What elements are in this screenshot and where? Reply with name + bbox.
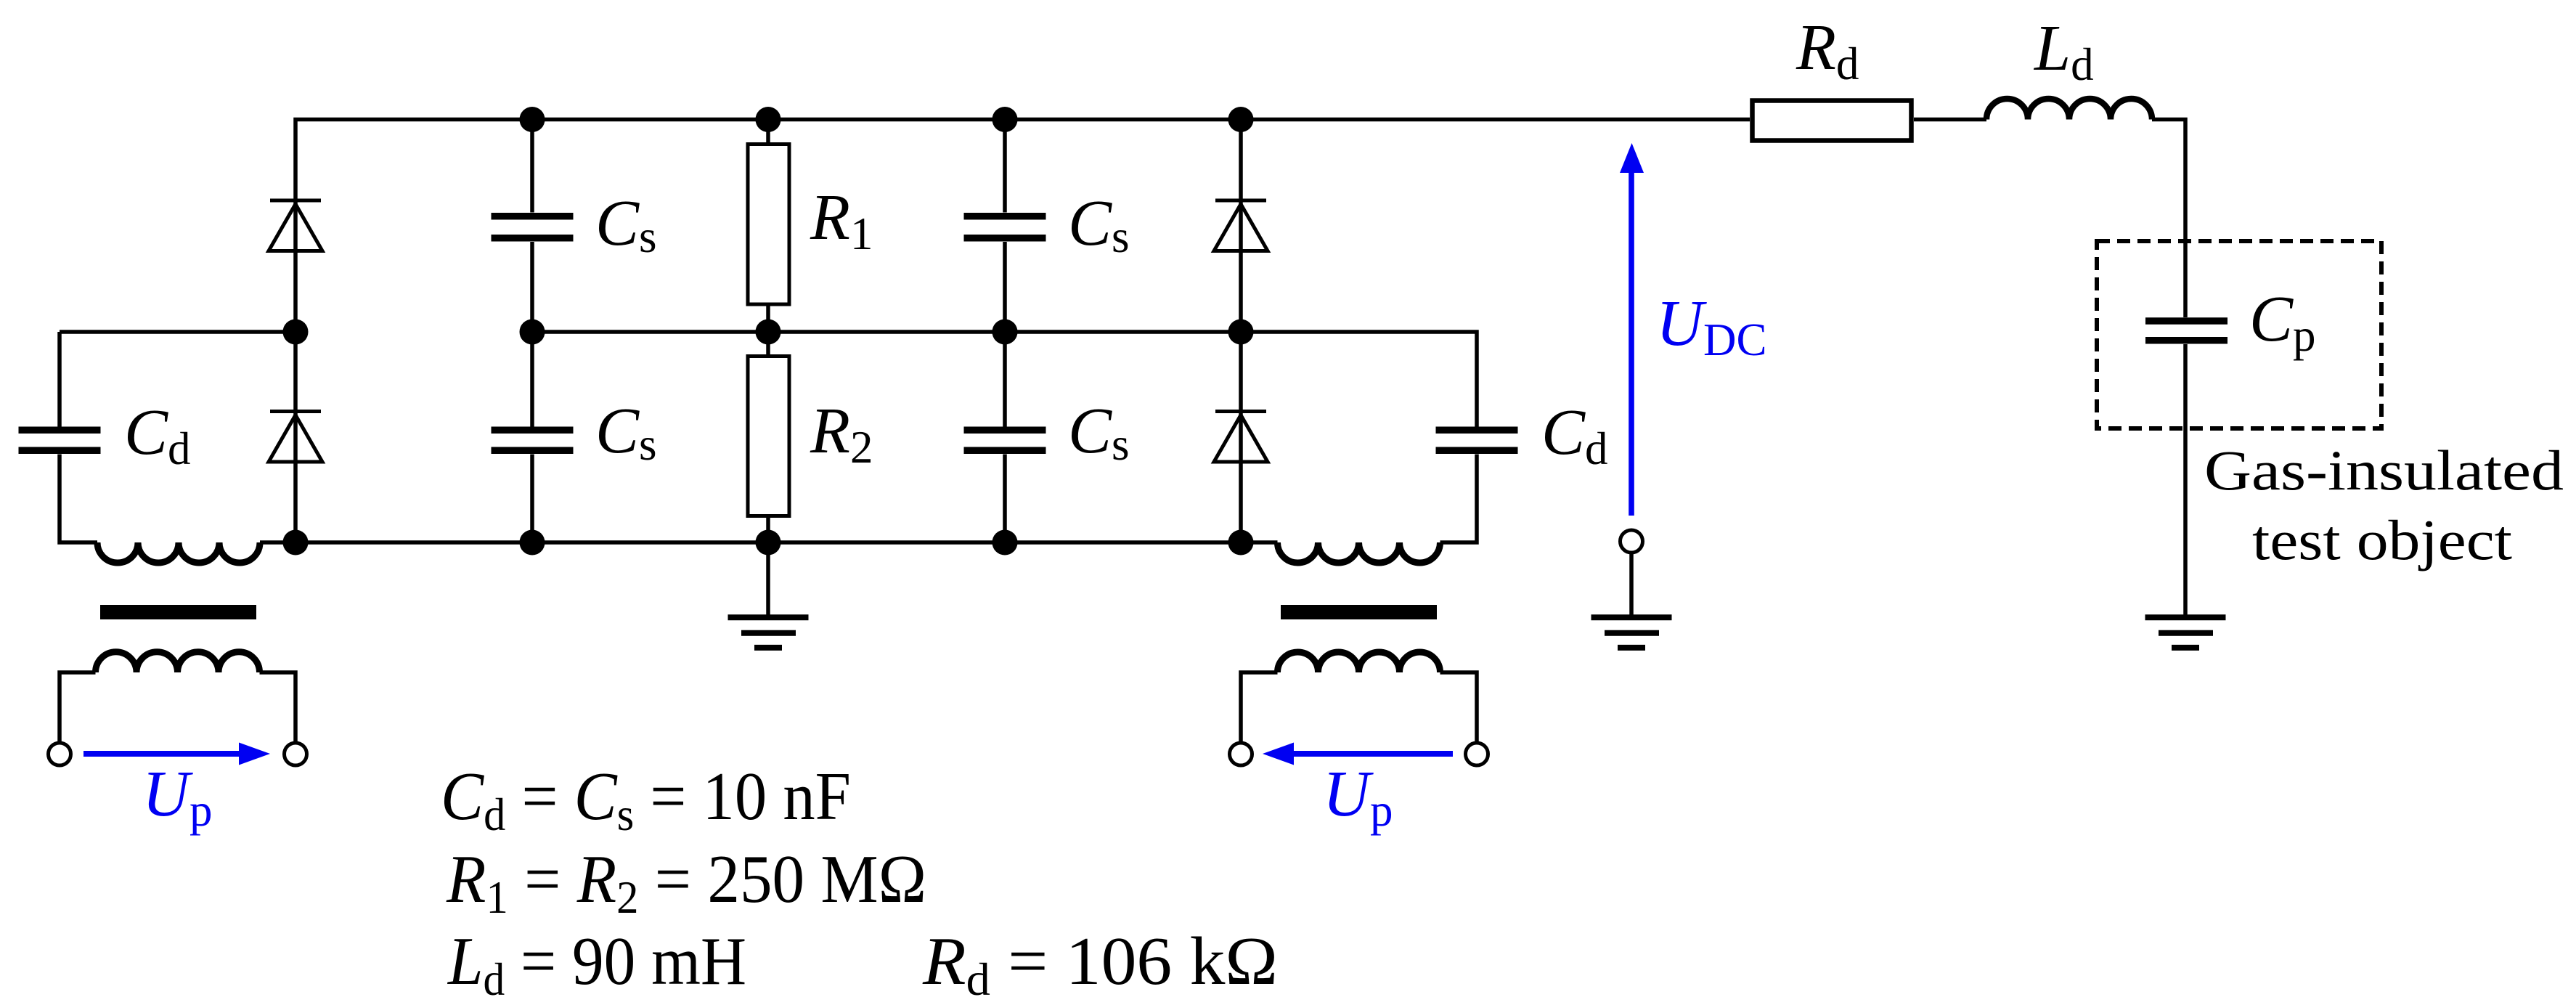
svg-text:R1 = R2 = 250 MΩ: R1 = R2 = 250 MΩ — [446, 842, 926, 923]
svg-text:test object: test object — [2252, 508, 2512, 571]
svg-text:Gas-insulated: Gas-insulated — [2204, 439, 2564, 502]
